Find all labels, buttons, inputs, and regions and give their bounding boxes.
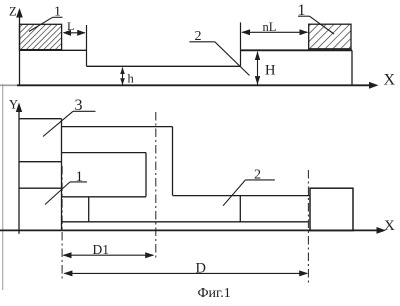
label 2 leader (bottom) bbox=[223, 180, 246, 206]
dimension L right arrowhead bbox=[77, 30, 85, 36]
dimension L line bbox=[64, 32, 85, 34]
hatched block 1 (right magnet), outline bbox=[309, 24, 351, 49]
label 2 underline (bottom) bbox=[246, 179, 275, 181]
label 1 leader (top left) bbox=[29, 17, 53, 31]
body right edge bbox=[351, 50, 353, 85]
body top surface left segment bbox=[20, 49, 87, 51]
inner rectangle right edge bbox=[145, 153, 147, 197]
dimension H bottom arrowhead bbox=[255, 76, 260, 85]
Y axis arrowhead bbox=[16, 103, 22, 113]
body top surface right segment bbox=[241, 49, 353, 51]
right block bbox=[310, 188, 353, 230]
label 3 underline bbox=[73, 110, 96, 112]
svg-text:Фиг.1: Фиг.1 bbox=[198, 286, 231, 301]
centerline at D1/D left bbox=[61, 166, 63, 281]
part 2 step vertical bbox=[172, 127, 174, 196]
dimension H line bbox=[257, 52, 259, 85]
part 2 divider vertical bbox=[239, 196, 241, 222]
X axis arrowhead (bottom view) bbox=[377, 227, 387, 234]
hatched block 1 (right magnet), hatching bbox=[309, 24, 351, 49]
dimension D line bbox=[65, 272, 308, 274]
step edge + extension line at x=240.5 bbox=[240, 22, 242, 66]
part 2 arm top edge bbox=[173, 195, 311, 197]
hatched block 1 (left magnet), outline bbox=[20, 24, 62, 49]
dimension D1 left arrowhead bbox=[62, 252, 71, 258]
svg-text:Z: Z bbox=[9, 5, 17, 19]
svg-text:X: X bbox=[384, 218, 395, 234]
dimension D1 right arrowhead bbox=[145, 252, 154, 258]
dimension h top arrowhead bbox=[120, 67, 125, 74]
label 1 leader (top right) bbox=[310, 16, 335, 34]
short vertical joint bbox=[88, 197, 90, 222]
dimension nL line bbox=[242, 31, 308, 33]
left column right edge bbox=[61, 119, 63, 230]
label 2 leader (top) bbox=[215, 42, 250, 76]
page edge artifact: grey vertical line at left bbox=[2, 84, 4, 290]
left column divider 2 bbox=[19, 187, 62, 189]
Z axis bbox=[19, 14, 21, 85]
step edge + extension line at x=86.5 bbox=[86, 25, 88, 66]
X axis arrowhead (top view) bbox=[369, 82, 379, 89]
dimension h line bbox=[122, 68, 124, 85]
recess lower surface bbox=[87, 65, 241, 67]
hatched block 1 (left magnet), hatching bbox=[20, 24, 62, 49]
centerline at D right bbox=[307, 170, 309, 283]
centerline at D1 right bbox=[155, 112, 157, 260]
dimension nL right arrowhead bbox=[300, 29, 309, 35]
svg-text:1: 1 bbox=[76, 169, 84, 185]
Z axis arrowhead bbox=[16, 8, 23, 18]
dimension H top arrowhead bbox=[255, 51, 260, 60]
label 1 underline (top right) bbox=[298, 15, 310, 17]
label 1 underline (bottom) bbox=[70, 181, 87, 183]
label 3 leader bbox=[43, 111, 73, 136]
label 2 underline (top) bbox=[189, 41, 214, 43]
dimension D1 line bbox=[64, 254, 154, 256]
svg-text:h: h bbox=[128, 72, 135, 86]
dimension h bottom arrowhead bbox=[120, 78, 125, 85]
left column top edge bbox=[19, 118, 62, 120]
X axis (top view), grey left segment bbox=[0, 84, 17, 86]
left column divider 1 bbox=[19, 161, 62, 163]
svg-text:X: X bbox=[384, 72, 396, 89]
dimension D left arrowhead bbox=[63, 270, 72, 276]
X axis (top view) bbox=[17, 84, 371, 86]
label 1 leader (bottom) bbox=[45, 182, 70, 205]
dimension D right arrowhead bbox=[299, 270, 308, 276]
X axis (bottom view) bbox=[0, 229, 378, 231]
svg-text:H: H bbox=[265, 63, 276, 79]
part 2 top edge bbox=[62, 126, 173, 128]
svg-text:Y: Y bbox=[9, 98, 18, 112]
inner rectangle bottom edge bbox=[62, 196, 147, 198]
Y axis bbox=[18, 108, 20, 234]
inner rectangle top edge bbox=[62, 152, 147, 154]
part 2 base bottom edge bbox=[62, 221, 309, 223]
svg-text:D1: D1 bbox=[93, 242, 110, 257]
label 1 underline (top left) bbox=[53, 16, 63, 18]
dimension L left arrowhead bbox=[63, 30, 71, 36]
svg-text:D: D bbox=[196, 261, 206, 277]
dimension nL left arrowhead bbox=[241, 29, 250, 35]
